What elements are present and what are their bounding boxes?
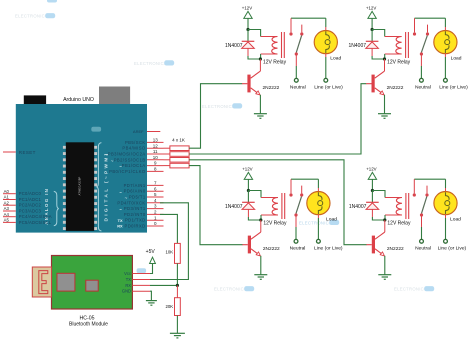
wire 10K to RX node — [176, 263, 178, 285]
label Neutral (block 2) — [415, 85, 431, 91]
relay RL4 coil 12V Relay — [385, 193, 409, 219]
wire node to diode D3 — [247, 191, 249, 203]
power +12V label (block 2) — [366, 6, 376, 11]
svg-text:PD4/T0/XCK: PD4/T0/XCK — [117, 200, 145, 205]
svg-text:12V Relay: 12V Relay — [263, 221, 287, 227]
diode D2 1N4007 — [366, 41, 379, 56]
power +12V label (block 1) — [242, 6, 252, 11]
label 1N4007 (block 3) — [225, 204, 243, 210]
label 12V Relay (block 1) — [263, 60, 287, 66]
svg-text:20K: 20K — [166, 304, 174, 309]
decor watermarks — [15, 0, 434, 292]
decor watermark pill on board — [91, 127, 101, 132]
wire Arduino pin2 to 10K resistor — [160, 214, 177, 243]
label 1N4007 (block 4) — [349, 204, 367, 210]
pin A5 (PC5/ADC5/SCL) — [3, 218, 52, 225]
wire load to Line terminal (block 4) — [445, 215, 447, 240]
power +5V arrow — [150, 257, 156, 263]
svg-text:Load: Load — [451, 56, 462, 62]
svg-text:A4: A4 — [4, 212, 10, 217]
svg-text:12V Relay: 12V Relay — [387, 60, 411, 66]
pin A4 (PC4/ADC4/SDA) — [3, 212, 52, 219]
wire diode to bottom rail (block 4) — [372, 217, 384, 220]
label Line (or Live) (block 4) — [438, 246, 467, 252]
junction collector node (block 1) — [259, 57, 262, 60]
svg-text:Line (or Live): Line (or Live) — [314, 85, 343, 91]
terminal Line (block 2) — [444, 78, 448, 82]
wire coil to bottom rail (block 4) — [384, 215, 386, 220]
svg-text:Load: Load — [450, 217, 461, 223]
wire emitter to ground (block 1) — [259, 95, 261, 114]
svg-text:Neutral: Neutral — [415, 85, 431, 91]
wire node to relay coil (block 4) — [372, 191, 385, 198]
wire +12V down (block 4) — [371, 179, 373, 190]
transistor Q3 2N2222 — [242, 232, 260, 256]
ground (block 2) — [378, 114, 391, 119]
label Neutral (block 3) — [290, 246, 306, 252]
svg-text:10K: 10K — [166, 249, 174, 254]
pin A0 (PC0/ADC0) — [3, 189, 41, 196]
label Neutral (block 4) — [415, 246, 431, 252]
svg-text:10: 10 — [153, 155, 159, 160]
resistor R1 1K — [164, 146, 190, 151]
svg-text:4 x 1K: 4 x 1K — [172, 138, 185, 143]
wire node to relay coil (block 3) — [248, 191, 261, 198]
svg-text:PB5/SCK: PB5/SCK — [125, 140, 146, 145]
svg-text:Arduino UNO: Arduino UNO — [63, 97, 94, 103]
svg-text:ELECTRONICS: ELECTRONICS — [214, 287, 247, 292]
relay RL4 pole — [420, 213, 423, 216]
pin A3 (PC3/ADC3) — [3, 206, 41, 213]
junction +12V node (block 2) — [371, 28, 374, 31]
pin A2 (PC2/ADC2) — [3, 200, 41, 207]
ground (block 4) — [378, 275, 391, 280]
lamp Load (block 3) — [307, 192, 330, 215]
label Neutral (block 1) — [290, 85, 306, 91]
HC-05 pin GND — [122, 289, 150, 294]
svg-text:A2: A2 — [4, 200, 10, 205]
svg-text:RX: RX — [117, 224, 123, 229]
wire load to Line terminal (block 2) — [444, 54, 446, 78]
transistor Q2 2N2222 — [366, 71, 384, 95]
HC-05 pin Vcc — [124, 271, 150, 276]
IC U1 ATMEGA328P — [63, 142, 97, 231]
label 2N2222 (block 4) — [387, 246, 404, 252]
svg-text:Line (or Live): Line (or Live) — [438, 246, 467, 252]
label AREF — [133, 129, 144, 134]
Arduino USB connector — [24, 95, 46, 131]
digital pins brace — [96, 143, 101, 231]
relay RL1 pole — [295, 52, 298, 55]
label 12V Relay (block 3) — [263, 221, 287, 227]
Arduino UNO board body — [16, 104, 147, 233]
label Line (or Live) (block 3) — [314, 246, 343, 252]
svg-text:Vcc: Vcc — [124, 271, 131, 276]
svg-text:TX: TX — [118, 218, 123, 223]
label Line (or Live) (block 1) — [314, 85, 343, 91]
label HC-05 — [80, 315, 95, 321]
svg-text:PD5/T1: PD5/T1 — [129, 195, 146, 200]
svg-text:A1: A1 — [4, 195, 10, 200]
wire node to diode D1 — [247, 30, 249, 42]
label Bluetooth Module — [69, 322, 108, 328]
relay RL2 NC contact — [426, 25, 429, 36]
pin A1 (PC1/ADC1) — [3, 195, 41, 202]
wire R2 to Q2 base (pin 11) — [189, 84, 366, 154]
svg-text:PD7/AIN1: PD7/AIN1 — [124, 183, 146, 188]
wire diode to bottom rail (block 1) — [248, 56, 260, 59]
relay RL3 blade — [296, 197, 302, 214]
svg-text:PB1/OC1A: PB1/OC1A — [122, 163, 146, 168]
wire +12V down (block 3) — [247, 179, 249, 190]
wire contact top rail (block 1) — [291, 17, 326, 19]
junction +12V node (block 3) — [247, 189, 250, 192]
ground (divider) — [170, 333, 185, 338]
svg-text:PD2/INT0: PD2/INT0 — [124, 212, 146, 217]
label DIGITAL (~PWM) — [104, 152, 110, 222]
pin 2 (PD2/INT0) — [124, 210, 164, 217]
wire emitter to ground (block 4) — [384, 256, 386, 275]
junction RX divider node — [176, 284, 179, 287]
diode D1 1N4007 — [242, 41, 255, 56]
svg-text:1N4007: 1N4007 — [349, 204, 367, 210]
pin 10 (PB2/SS/OC1B) — [111, 155, 164, 164]
svg-text:Bluetooth Module: Bluetooth Module — [69, 322, 108, 328]
transistor Q4 2N2222 — [366, 232, 384, 256]
relay RL3 NO contact — [289, 179, 292, 196]
svg-text:~: ~ — [105, 153, 108, 158]
wire load to Line terminal (block 1) — [325, 54, 327, 78]
svg-text:+12V: +12V — [242, 167, 252, 172]
wire collector (block 3) — [260, 220, 262, 232]
power +12V arrow (block 3) — [244, 172, 252, 179]
wire coil to bottom rail (block 1) — [260, 54, 262, 59]
terminal Neutral (block 1) — [294, 78, 298, 82]
wire R4 to Q3 base (pin 9) — [189, 166, 243, 245]
wire R1 to Q1 base (pin 12) — [189, 84, 242, 149]
svg-text:~: ~ — [111, 158, 114, 163]
label 1N4007 (block 1) — [225, 43, 243, 49]
svg-text:PB2/SS/OC1B: PB2/SS/OC1B — [114, 157, 146, 162]
svg-text:1N4007: 1N4007 — [348, 43, 366, 49]
power +12V arrow (block 2) — [368, 11, 376, 18]
svg-text:ELECTRONICS: ELECTRONICS — [15, 14, 48, 19]
label 2N2222 (block 1) — [263, 85, 280, 91]
svg-text:PC1/ADC1: PC1/ADC1 — [19, 197, 42, 202]
svg-text:A3: A3 — [4, 206, 10, 211]
pin 1 (PD1/TXD) — [118, 215, 164, 223]
wire +12V down (block 1) — [247, 18, 249, 29]
svg-text:HC-05: HC-05 — [80, 315, 95, 321]
svg-text:Load: Load — [330, 56, 341, 62]
HC-05 pin RX — [125, 283, 150, 288]
wire rail to load (block 2) — [444, 18, 446, 30]
wire collector (block 2) — [384, 59, 386, 71]
wire emitter to ground (block 2) — [384, 95, 386, 114]
resistor R3 1K — [164, 158, 190, 163]
svg-text:Line (or Live): Line (or Live) — [439, 85, 468, 91]
svg-text:~: ~ — [119, 190, 122, 195]
analog pins brace — [54, 191, 59, 225]
lamp Load (block 4) — [434, 192, 457, 215]
power +12V arrow (block 4) — [368, 172, 376, 179]
pin 13 (PB5/SCK) — [125, 138, 164, 145]
label 4 x 1K — [172, 138, 185, 143]
label ANALOG IN — [44, 188, 49, 225]
relay RL3 NC contact — [300, 186, 303, 197]
diode D4 1N4007 — [366, 202, 379, 217]
wire pole to Neutral terminal (block 4) — [421, 217, 423, 240]
pin 6 (PD6/AIN0) — [119, 186, 163, 195]
lamp Load (block 1) — [314, 30, 337, 53]
terminal Line (block 4) — [444, 239, 448, 243]
junction +12V node (block 1) — [246, 28, 249, 31]
svg-text:12: 12 — [153, 143, 159, 148]
pin 0 (PD0/RXD) — [117, 221, 163, 229]
power +12V label (block 3) — [242, 167, 252, 172]
svg-text:2N2222: 2N2222 — [387, 246, 404, 252]
transistor Q1 2N2222 — [242, 71, 260, 95]
resistor 10K — [175, 243, 181, 263]
label Load (block 2) — [451, 56, 462, 62]
wire HC-05 GND to ground — [150, 291, 151, 300]
terminal Line (block 3) — [317, 239, 321, 243]
label 12V Relay (block 4) — [387, 221, 411, 227]
terminal Neutral (block 3) — [294, 239, 298, 243]
svg-text:PC3/ADC3: PC3/ADC3 — [19, 209, 42, 214]
terminal Line (block 1) — [324, 78, 328, 82]
wire emitter to ground (block 3) — [260, 256, 262, 275]
relay RL4 blade — [422, 197, 427, 214]
terminal Neutral (block 2) — [420, 78, 424, 82]
relay RL3 pole — [294, 213, 297, 216]
HC-05 pin TX — [126, 277, 150, 282]
wire pole to Neutral terminal (block 2) — [420, 56, 422, 79]
wire coil to bottom rail (block 2) — [384, 54, 386, 59]
svg-text:PC4/ADC4/SDA: PC4/ADC4/SDA — [19, 214, 52, 219]
pin 3 (PD3/INT1) — [119, 204, 163, 213]
svg-text:PC5/ADC5/SCL: PC5/ADC5/SCL — [19, 220, 52, 225]
wire pole to Neutral terminal (block 1) — [295, 56, 297, 79]
label 20K — [166, 304, 174, 309]
svg-text:ELECTRONICS: ELECTRONICS — [394, 287, 427, 292]
svg-text:Line (or Live): Line (or Live) — [314, 246, 343, 252]
wire contact top rail (block 2) — [415, 17, 446, 19]
wire rail to load (block 1) — [325, 18, 327, 30]
svg-text:PB3/MOSI/OC2A: PB3/MOSI/OC2A — [108, 152, 146, 157]
label RESET — [19, 150, 36, 155]
svg-text:PD3/INT1: PD3/INT1 — [124, 206, 146, 211]
label 2N2222 (block 2) — [387, 85, 404, 91]
wire node to relay coil (block 2) — [372, 30, 385, 37]
label +5V — [146, 249, 156, 255]
wire +12V down (block 2) — [371, 18, 373, 29]
svg-text:12V Relay: 12V Relay — [263, 60, 287, 66]
svg-text:PD6/AIN0: PD6/AIN0 — [124, 189, 146, 194]
pin RESET wire stub — [3, 151, 16, 153]
label 1N4007 (block 2) — [348, 43, 366, 49]
ground (block 3) — [254, 275, 267, 280]
relay RL1 coil 12V Relay — [261, 32, 285, 58]
terminal Neutral (block 4) — [420, 239, 424, 243]
svg-text:2N2222: 2N2222 — [263, 85, 280, 91]
wire load to Line terminal (block 3) — [317, 215, 319, 240]
wire +5V to HC-05 Vcc — [150, 264, 153, 274]
wire pole to Neutral terminal (block 3) — [295, 217, 297, 240]
wire coil to bottom rail (block 3) — [260, 215, 262, 220]
svg-text:1N4007: 1N4007 — [225, 43, 243, 49]
svg-text:RESET: RESET — [19, 150, 36, 155]
svg-text:TX: TX — [126, 277, 132, 282]
relay RL2 coil 12V Relay — [385, 32, 409, 58]
diode D3 1N4007 — [242, 202, 255, 217]
svg-text:PC0/ADC0: PC0/ADC0 — [19, 191, 42, 196]
svg-text:DIGITAL (~PWM): DIGITAL (~PWM) — [104, 152, 110, 222]
svg-text:+12V: +12V — [366, 6, 376, 11]
resistor 20K — [175, 285, 181, 315]
relay RL4 NC contact — [425, 186, 428, 197]
svg-text:2N2222: 2N2222 — [387, 85, 404, 91]
junction collector node (block 2) — [383, 57, 386, 60]
svg-text:AREF: AREF — [133, 129, 144, 134]
HC-05 bluetooth module body — [52, 256, 133, 310]
wire rail to load (block 4) — [445, 179, 447, 191]
pin 5 (PD5/T1) — [125, 192, 164, 201]
relay RL4 NO contact — [413, 179, 416, 196]
power +12V label (block 4) — [366, 167, 376, 172]
svg-text:ATMEGA328P: ATMEGA328P — [78, 177, 82, 196]
wire 20K to ground — [176, 316, 178, 334]
wire Arduino pin4 to HC-05 TX — [150, 203, 188, 280]
label 12V Relay (block 2) — [387, 60, 411, 66]
ground (block 1) — [254, 114, 267, 119]
wire rail to load (block 3) — [317, 179, 319, 191]
pin 11 (PB3/MOSI/OC2A) — [105, 149, 163, 158]
pin AREF wire stub — [147, 131, 160, 133]
svg-text:ELECTRONICS: ELECTRONICS — [134, 61, 167, 66]
label Load (block 1) — [330, 56, 341, 62]
pin 12 (PB4/MISO) — [122, 143, 163, 150]
label Load (block 4) — [450, 217, 461, 223]
svg-text:GND: GND — [122, 289, 131, 294]
pin 9 (PB1/OC1A) — [119, 161, 163, 170]
label Line (or Live) (block 2) — [439, 85, 468, 91]
relay RL2 blade — [421, 36, 427, 53]
svg-text:11: 11 — [153, 149, 158, 154]
wire node to diode D4 — [371, 191, 373, 203]
svg-text:PB0/ICP1/CLKO: PB0/ICP1/CLKO — [109, 169, 146, 174]
svg-text:A5: A5 — [4, 218, 10, 223]
junction collector node (block 4) — [383, 218, 386, 221]
power +12V arrow (block 1) — [244, 11, 252, 18]
pin 8 (PB0/ICP1/CLKO) — [109, 167, 163, 174]
svg-text:Load: Load — [326, 217, 337, 223]
HC-05 antenna — [32, 267, 51, 297]
relay RL1 NC contact — [300, 25, 303, 36]
label 10K — [166, 249, 174, 254]
svg-text:Neutral: Neutral — [290, 85, 306, 91]
svg-text:A0: A0 — [4, 189, 10, 194]
wire diode to bottom rail (block 3) — [248, 217, 260, 220]
relay RL1 NO contact — [289, 18, 292, 35]
wire diode to bottom rail (block 2) — [372, 56, 384, 59]
svg-text:PD0/RXD: PD0/RXD — [124, 224, 145, 229]
resistor R2 1K — [164, 152, 190, 157]
svg-text:PD1/TXD: PD1/TXD — [125, 218, 146, 223]
wire node to relay coil (block 1) — [248, 30, 261, 37]
svg-text:12V Relay: 12V Relay — [387, 221, 411, 227]
wire HC-05 RX to node — [150, 284, 177, 286]
svg-text:~: ~ — [119, 207, 122, 212]
junction collector node (block 3) — [259, 218, 262, 221]
Arduino power jack — [99, 87, 130, 124]
svg-text:+12V: +12V — [242, 6, 252, 11]
resistor R4 1K — [164, 163, 190, 168]
pin 4 (PD4/T0/XCK) — [117, 198, 163, 205]
wire collector (block 4) — [384, 220, 386, 232]
relay RL2 pole — [420, 52, 423, 55]
relay RL1 blade — [296, 36, 301, 53]
pin 7 (PD7/AIN1) — [124, 181, 164, 188]
svg-text:PC2/ADC2: PC2/ADC2 — [19, 203, 42, 208]
wire node to diode D2 — [371, 30, 373, 42]
lamp Load (block 2) — [434, 30, 457, 53]
relay RL2 NO contact — [413, 18, 416, 35]
svg-text:+5V: +5V — [146, 249, 156, 255]
svg-text:1N4007: 1N4007 — [225, 204, 243, 210]
svg-text:Neutral: Neutral — [290, 246, 306, 252]
svg-text:RX: RX — [125, 283, 131, 288]
svg-text:Neutral: Neutral — [415, 246, 431, 252]
wire collector (block 1) — [259, 59, 261, 71]
wire contact top rail (block 3) — [291, 178, 318, 180]
label 2N2222 (block 3) — [263, 246, 280, 252]
relay RL3 coil 12V Relay — [261, 193, 285, 219]
svg-text:ELECTRONICS: ELECTRONICS — [202, 104, 235, 109]
junction +12V node (block 4) — [371, 189, 374, 192]
svg-text:13: 13 — [153, 138, 159, 143]
svg-text:2N2222: 2N2222 — [263, 246, 280, 252]
svg-text:+12V: +12V — [366, 167, 376, 172]
wire contact top rail (block 4) — [414, 178, 445, 180]
svg-text:PB4/MISO: PB4/MISO — [122, 146, 145, 151]
label Load (block 3) — [326, 217, 337, 223]
label Arduino UNO — [63, 97, 94, 103]
wire R3 to Q4 base (pin 10) — [189, 160, 367, 245]
ground (HC-05) — [146, 301, 157, 306]
